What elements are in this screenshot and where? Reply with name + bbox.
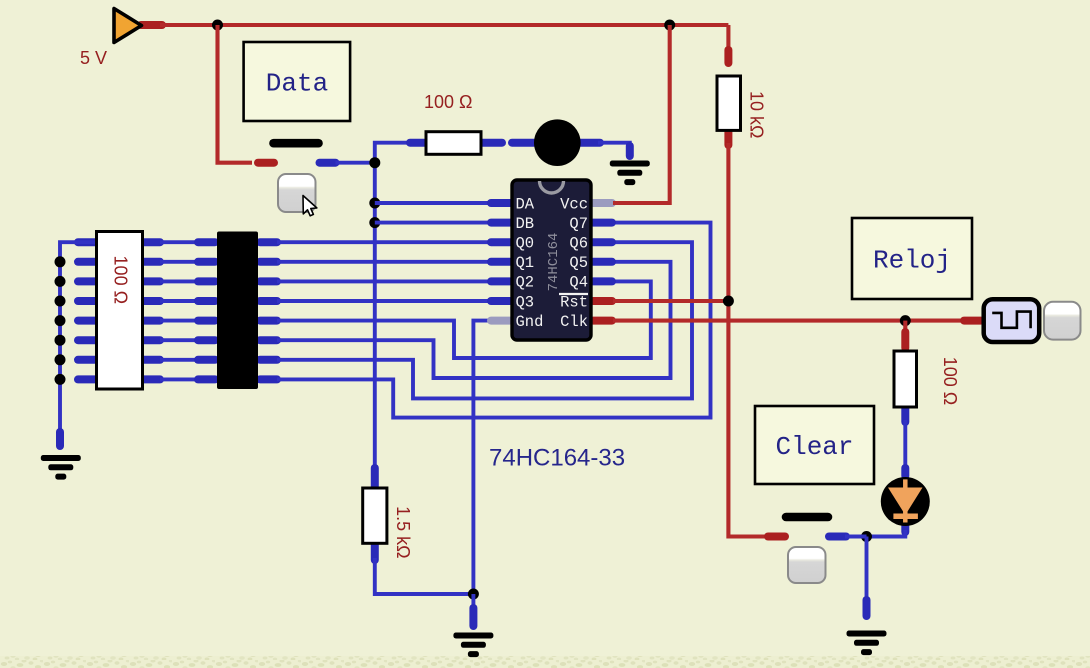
wire: LED D2 to switch node (867, 530, 906, 537)
switch SW2 Clear (768, 517, 846, 537)
svg-text:Q5: Q5 (569, 254, 588, 272)
resistor R3 100 ohm (894, 351, 917, 422)
svg-text:100 Ω: 100 Ω (940, 357, 960, 406)
wires: RN1 to bar display (160, 242, 217, 379)
junction bus r6 (55, 335, 66, 346)
svg-text:Rst: Rst (560, 293, 588, 311)
wire: RN1 common left bus to ground (60, 242, 95, 440)
wire: probe D1 to ground (598, 143, 630, 148)
svg-text:DA: DA (516, 195, 535, 213)
svg-text:100 Ω: 100 Ω (424, 92, 473, 112)
wire: +5V top rail (160, 23, 728, 27)
svg-text:DB: DB (516, 215, 535, 233)
junction bus r7 (55, 354, 66, 365)
wire: bar row4 to Q3 (277, 299, 489, 303)
svg-text:Q2: Q2 (516, 274, 535, 292)
wire: Vcc to top rail (613, 25, 670, 203)
ground GND4 (847, 631, 887, 656)
pin Q1 (491, 258, 510, 266)
junction bus r8 (55, 374, 66, 385)
wire: R4 to ground node (375, 558, 474, 594)
junction bus r5 (55, 315, 66, 326)
IC U1 74HC164 (491, 180, 612, 340)
junction: top rail to Data switch (212, 20, 223, 31)
resistor R1 10k (717, 50, 741, 145)
wire: DB to node A (375, 221, 489, 225)
pin Q6 (593, 238, 612, 246)
svg-text:Q6: Q6 (569, 235, 588, 253)
wire: Rst pin to node (613, 299, 728, 303)
pin Q0 (491, 238, 510, 246)
IC notch (540, 181, 564, 193)
pin Q5 (593, 258, 612, 266)
svg-text:1.5 kΩ: 1.5 kΩ (393, 506, 413, 558)
wire: Clk to clock source (613, 319, 966, 323)
junction: top rail to Vcc (664, 20, 675, 31)
wire: node A vertical (R2 / DA / DB / R4) (375, 143, 408, 475)
wire: Clk node down to R3 (903, 321, 907, 352)
wire: junction to ground GND4 (865, 537, 869, 616)
svg-text:74HC164: 74HC164 (546, 233, 562, 292)
svg-text:Gnd: Gnd (516, 313, 544, 331)
wire: switch SW1 to node A (336, 161, 375, 165)
wire: bar row7 to Q6 (277, 242, 692, 398)
label box Clear (755, 406, 874, 484)
junction: Rst / R1 (723, 296, 734, 307)
resistor R2 100 ohm (410, 132, 502, 155)
LED D2 (881, 468, 930, 532)
resistor network RN1 100 ohm x8 (78, 232, 160, 390)
push button B3 (clock) (1044, 302, 1081, 340)
pin Rst (593, 297, 612, 305)
wire: DA to node A (375, 201, 489, 205)
pin Clk (593, 317, 612, 325)
wire: bar row6 to Q5 (277, 262, 671, 378)
ground GND1 (41, 455, 81, 480)
label box Data (244, 42, 351, 121)
pin Q3 (491, 297, 510, 305)
junction bus r3 (55, 276, 66, 287)
wire: bar row5 to Q4 (277, 281, 651, 358)
clock source CLK1 (964, 299, 1039, 342)
wire: Gnd pin to ground (473, 321, 489, 594)
wire: bar row8 to Q7 (277, 223, 711, 418)
wire: bar row3 to Q2 (277, 279, 489, 283)
junction: node A to DB (369, 217, 380, 228)
pin DA (491, 199, 510, 207)
svg-text:Clk: Clk (560, 313, 588, 331)
wire: R3 to LED D2 (903, 420, 907, 478)
svg-text:Q0: Q0 (516, 235, 535, 253)
IC body (512, 180, 591, 340)
junction: switch / LED / ground (861, 531, 872, 542)
pin Gnd (491, 317, 510, 325)
push button B1 (Data) (278, 174, 316, 212)
junction: Clk / R3 (900, 315, 911, 326)
ground GND3 (453, 633, 493, 658)
junction node A (369, 157, 380, 168)
svg-text:Reloj: Reloj (873, 246, 951, 276)
wire: rail down to Data switch (218, 25, 253, 163)
svg-text:Q7: Q7 (569, 215, 588, 233)
label box Reloj (852, 218, 972, 299)
push button B2 (Clear) (788, 547, 826, 583)
junction: Gnd net (468, 589, 479, 600)
svg-text:Q3: Q3 (516, 293, 535, 311)
svg-text:Vcc: Vcc (560, 195, 588, 213)
svg-text:Clear: Clear (776, 432, 854, 462)
LED probe D1 (dark) (512, 119, 600, 166)
wire: bar row2 to Q1 (277, 260, 489, 264)
junction: node A to DA (369, 198, 380, 209)
wire: R1 down to Rst node and Clear switch (728, 143, 765, 537)
switch SW1 Data (258, 143, 336, 163)
voltage source V1 5V (114, 9, 162, 43)
ground GND2 (610, 161, 650, 186)
junction bus r2 (55, 256, 66, 267)
wire: switch SW2 to junction (845, 535, 867, 539)
wire: top rail down to R1 (726, 25, 730, 52)
svg-text:Data: Data (266, 69, 328, 99)
junction bus r4 (55, 296, 66, 307)
bar display DS1 (217, 232, 277, 390)
wire: node to ground GND3 (471, 594, 475, 618)
wire: bar row1 to Q0 (277, 240, 489, 244)
pin Q2 (491, 277, 510, 285)
resistor R4 1.5k (363, 468, 387, 560)
pin Vcc (593, 199, 612, 207)
svg-text:10 kΩ: 10 kΩ (747, 91, 767, 138)
svg-text:100 Ω: 100 Ω (110, 256, 130, 305)
svg-text:Q4: Q4 (569, 274, 588, 292)
mouse cursor (303, 196, 317, 216)
pin Q7 (593, 219, 612, 227)
pin Q4 (593, 277, 612, 285)
svg-text:5 V: 5 V (80, 48, 107, 68)
svg-text:Q1: Q1 (516, 254, 535, 272)
svg-text:74HC164-33: 74HC164-33 (489, 445, 625, 472)
pin DB (491, 219, 510, 227)
